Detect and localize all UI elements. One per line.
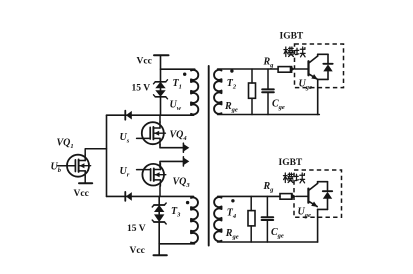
- label module (bottom): [284, 173, 286, 183]
- power rail Vcc (bottom): [154, 254, 167, 256]
- wire VQ4 source to arrow: [160, 145, 184, 148]
- power rail +Vcc (top): [154, 54, 169, 56]
- wire between bottom zeners: [158, 212, 160, 215]
- wire VQ5 drain link: [85, 149, 106, 155]
- transformer T4 secondary winding: [214, 197, 221, 241]
- wire bottom row (top module): [218, 114, 320, 116]
- wire to bottom rail: [158, 222, 160, 255]
- transistor VQ3: [142, 164, 164, 186]
- terminal arrow (upper): [184, 144, 189, 151]
- IGBT module dashed box (bottom): [294, 170, 342, 217]
- wire VQ4 drain: [159, 115, 161, 122]
- wire left bus: [106, 115, 108, 196]
- gate terminal arrow (bottom module): [291, 193, 296, 200]
- label module (top): [285, 47, 287, 57]
- svg-text:Vcc: Vcc: [74, 189, 89, 199]
- power rail Vcc (VQ5 source): [79, 182, 92, 184]
- svg-text:15 V: 15 V: [132, 84, 151, 94]
- wire T2 top to gate resistor: [218, 68, 279, 70]
- svg-text:15 V: 15 V: [127, 224, 146, 234]
- transistor VQ5: [67, 155, 89, 177]
- capacitor Cge (bottom): [266, 196, 268, 217]
- wire T1 top branch: [161, 68, 195, 70]
- zener VS3 (cathode up): [154, 205, 164, 212]
- zener VS4 (cathode down): [154, 214, 164, 222]
- zener VS2 (cathode down): [155, 90, 165, 97]
- IGBT module dashed box (top): [295, 44, 344, 88]
- svg-text:IGBT: IGBT: [279, 158, 303, 168]
- wire Vcc stem to zener chain: [160, 55, 162, 81]
- wire bottom row (bottom module): [218, 241, 318, 243]
- wire arrow to IGBT gate (bottom): [296, 195, 308, 197]
- wire top node row: [107, 114, 194, 116]
- transformer T3 primary winding: [191, 197, 198, 242]
- wire emitter down (top module): [317, 79, 319, 114]
- resistor Rge (top): [251, 69, 253, 83]
- wire zener chain (bottom): [158, 196, 160, 205]
- wire VQ3 source: [159, 186, 161, 197]
- IGBT V1 with freewheel diode: [307, 61, 309, 75]
- wire VQ3 drain to arrow: [160, 161, 184, 167]
- svg-text:Vcc: Vcc: [130, 246, 145, 256]
- IGBT V2 with freewheel diode: [307, 189, 309, 203]
- wire bottom node row: [107, 195, 194, 197]
- transformer core: [208, 66, 210, 246]
- transistor VQ4: [142, 122, 164, 144]
- diode VD1 (top): [124, 111, 126, 120]
- wire zener to node: [160, 97, 162, 115]
- transformer T1 primary winding: [191, 70, 198, 115]
- resistor Rge (bottom): [250, 196, 252, 210]
- terminal arrow (lower): [184, 158, 189, 165]
- resistor Rg (bottom): [280, 194, 292, 200]
- wire between zeners: [160, 88, 162, 90]
- polarity dot T4: [231, 199, 234, 202]
- polarity dot T3: [186, 201, 189, 204]
- transformer T2 secondary winding: [214, 70, 221, 114]
- wire VQ5 source: [84, 177, 86, 183]
- wire T4 top to gate resistor: [218, 195, 280, 197]
- wire emitter down (bottom module): [317, 209, 319, 242]
- wire arrow to IGBT gate: [295, 68, 308, 70]
- capacitor Cge (top): [267, 69, 269, 89]
- wire T3 bottom branch: [159, 243, 194, 245]
- polarity dot T1: [183, 73, 186, 76]
- resistor Rg (top): [278, 67, 292, 73]
- zener VS1 (cathode up): [155, 82, 165, 88]
- diode VD2 (bottom): [124, 192, 126, 201]
- svg-text:Vcc: Vcc: [137, 57, 152, 67]
- polarity dot T2: [230, 69, 233, 72]
- svg-text:IGBT: IGBT: [280, 32, 304, 42]
- gate terminal arrow (top module): [290, 66, 295, 73]
